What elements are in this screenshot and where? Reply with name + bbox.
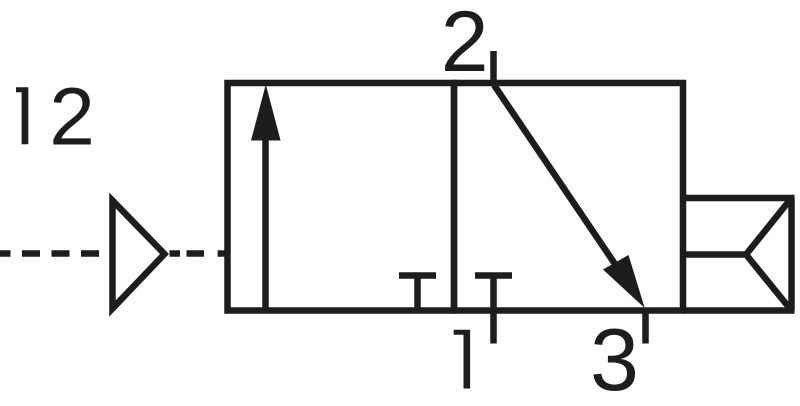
svg-text:2: 2 [441, 0, 489, 90]
svg-text:3: 3 [590, 310, 639, 406]
svg-text:2: 2 [49, 71, 95, 162]
pilot dashed line (triangle to valve body) [170, 250, 181, 257]
valve body left position square [228, 83, 455, 311]
flow path arrow up in left square [251, 85, 281, 311]
pilot signal dashed line (left) [0, 250, 110, 257]
spring return box bottom line [683, 307, 795, 314]
port 2 stub [490, 51, 497, 83]
spring return mid line [683, 251, 746, 258]
spring return box right edge [788, 198, 795, 311]
port 3 stub [642, 311, 649, 344]
pilot port label 12 [16, 71, 95, 162]
port label 1 [454, 330, 470, 389]
blocked port T in left square [399, 276, 436, 311]
pilot actuator triangle [113, 201, 165, 309]
spring return triangle lower diagonal [746, 255, 792, 311]
spring return triangle upper diagonal [746, 198, 792, 255]
blocked port T in right square with port 1 stub [475, 276, 512, 344]
valve body right position square [454, 83, 683, 311]
diagonal flow arrow 2 to 3 in right square [494, 85, 645, 308]
spring return box top line [683, 195, 795, 202]
